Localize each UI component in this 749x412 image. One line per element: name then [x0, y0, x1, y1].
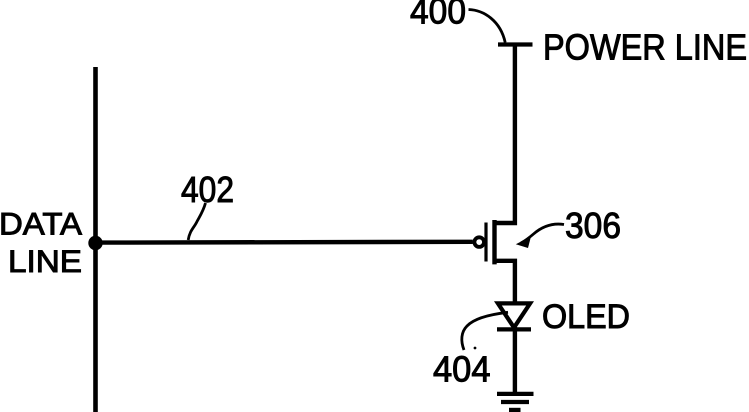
wire: source of transistor to OLED	[495, 261, 515, 303]
leader arrow for 306	[521, 224, 564, 243]
svg-text:402: 402	[181, 169, 234, 210]
svg-text:DATA: DATA	[0, 206, 82, 242]
ground	[497, 394, 534, 410]
leader for 400	[469, 10, 506, 43]
wire: OLED cathode to ground	[513, 327, 517, 392]
gate bubble	[474, 237, 484, 247]
svg-text:OLED: OLED	[542, 298, 630, 336]
svg-text:POWER LINE: POWER LINE	[543, 27, 747, 68]
gate bar	[484, 223, 487, 262]
channel bar	[492, 220, 496, 264]
node A: junction dot on data line	[88, 236, 102, 250]
wire: gate wire from data line to transistor	[96, 240, 473, 245]
svg-text:LINE: LINE	[8, 243, 82, 279]
speck	[474, 347, 477, 350]
svg-text:400: 400	[410, 0, 466, 32]
power terminal tick	[498, 42, 533, 46]
wire: power line down to transistor drain	[495, 43, 515, 224]
svg-text:404: 404	[433, 349, 491, 390]
wire: DATA LINE vertical bus	[93, 67, 98, 412]
leader for 402	[188, 203, 205, 240]
leader for 404	[462, 312, 508, 350]
transistor Q 306 (PMOS)	[474, 220, 494, 264]
svg-text:306: 306	[565, 205, 621, 246]
label DATA LINE	[0, 206, 82, 280]
diode OLED	[497, 303, 531, 329]
